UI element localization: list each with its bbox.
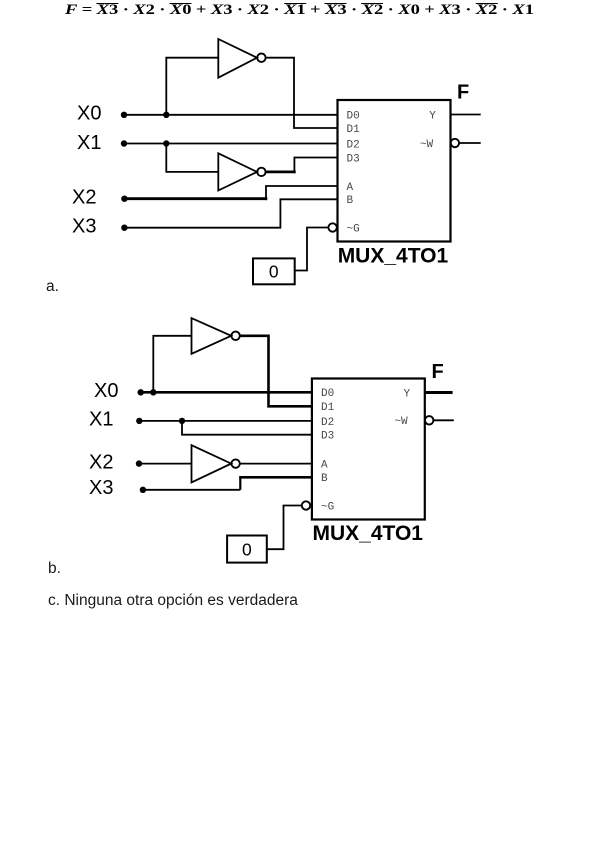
- svg-text:F: F: [432, 361, 444, 383]
- svg-text:D0: D0: [321, 388, 334, 400]
- svg-text:D3: D3: [347, 153, 360, 165]
- svg-text:MUX_4TO1: MUX_4TO1: [338, 245, 449, 268]
- svg-text:B: B: [321, 473, 328, 485]
- svg-text:D2: D2: [347, 139, 360, 151]
- svg-text:D1: D1: [347, 124, 361, 136]
- svg-text:X3: X3: [72, 215, 96, 237]
- svg-text:X2: X2: [72, 186, 96, 208]
- svg-text:D3: D3: [321, 431, 334, 443]
- svg-text:~W: ~W: [394, 416, 408, 428]
- svg-text:Y: Y: [403, 388, 410, 400]
- svg-text:~G: ~G: [347, 223, 360, 235]
- svg-text:D2: D2: [321, 417, 334, 429]
- svg-text:MUX_4TO1: MUX_4TO1: [313, 522, 424, 545]
- svg-text:~G: ~G: [321, 501, 334, 513]
- svg-text:D1: D1: [321, 402, 335, 414]
- svg-text:0: 0: [242, 540, 252, 560]
- svg-text:A: A: [321, 459, 328, 471]
- svg-text:X1: X1: [89, 408, 113, 430]
- svg-text:Y: Y: [429, 110, 436, 122]
- svg-text:X2: X2: [89, 451, 113, 473]
- svg-text:B: B: [347, 195, 354, 207]
- svg-text:F: F: [457, 81, 469, 103]
- svg-text:A: A: [347, 182, 354, 194]
- svg-text:X0: X0: [77, 103, 101, 125]
- svg-text:0: 0: [269, 262, 279, 282]
- svg-text:D0: D0: [347, 111, 360, 123]
- svg-text:X0: X0: [94, 380, 118, 402]
- svg-text:~W: ~W: [420, 139, 434, 151]
- svg-text:X1: X1: [77, 132, 101, 154]
- svg-text:X3: X3: [89, 477, 113, 499]
